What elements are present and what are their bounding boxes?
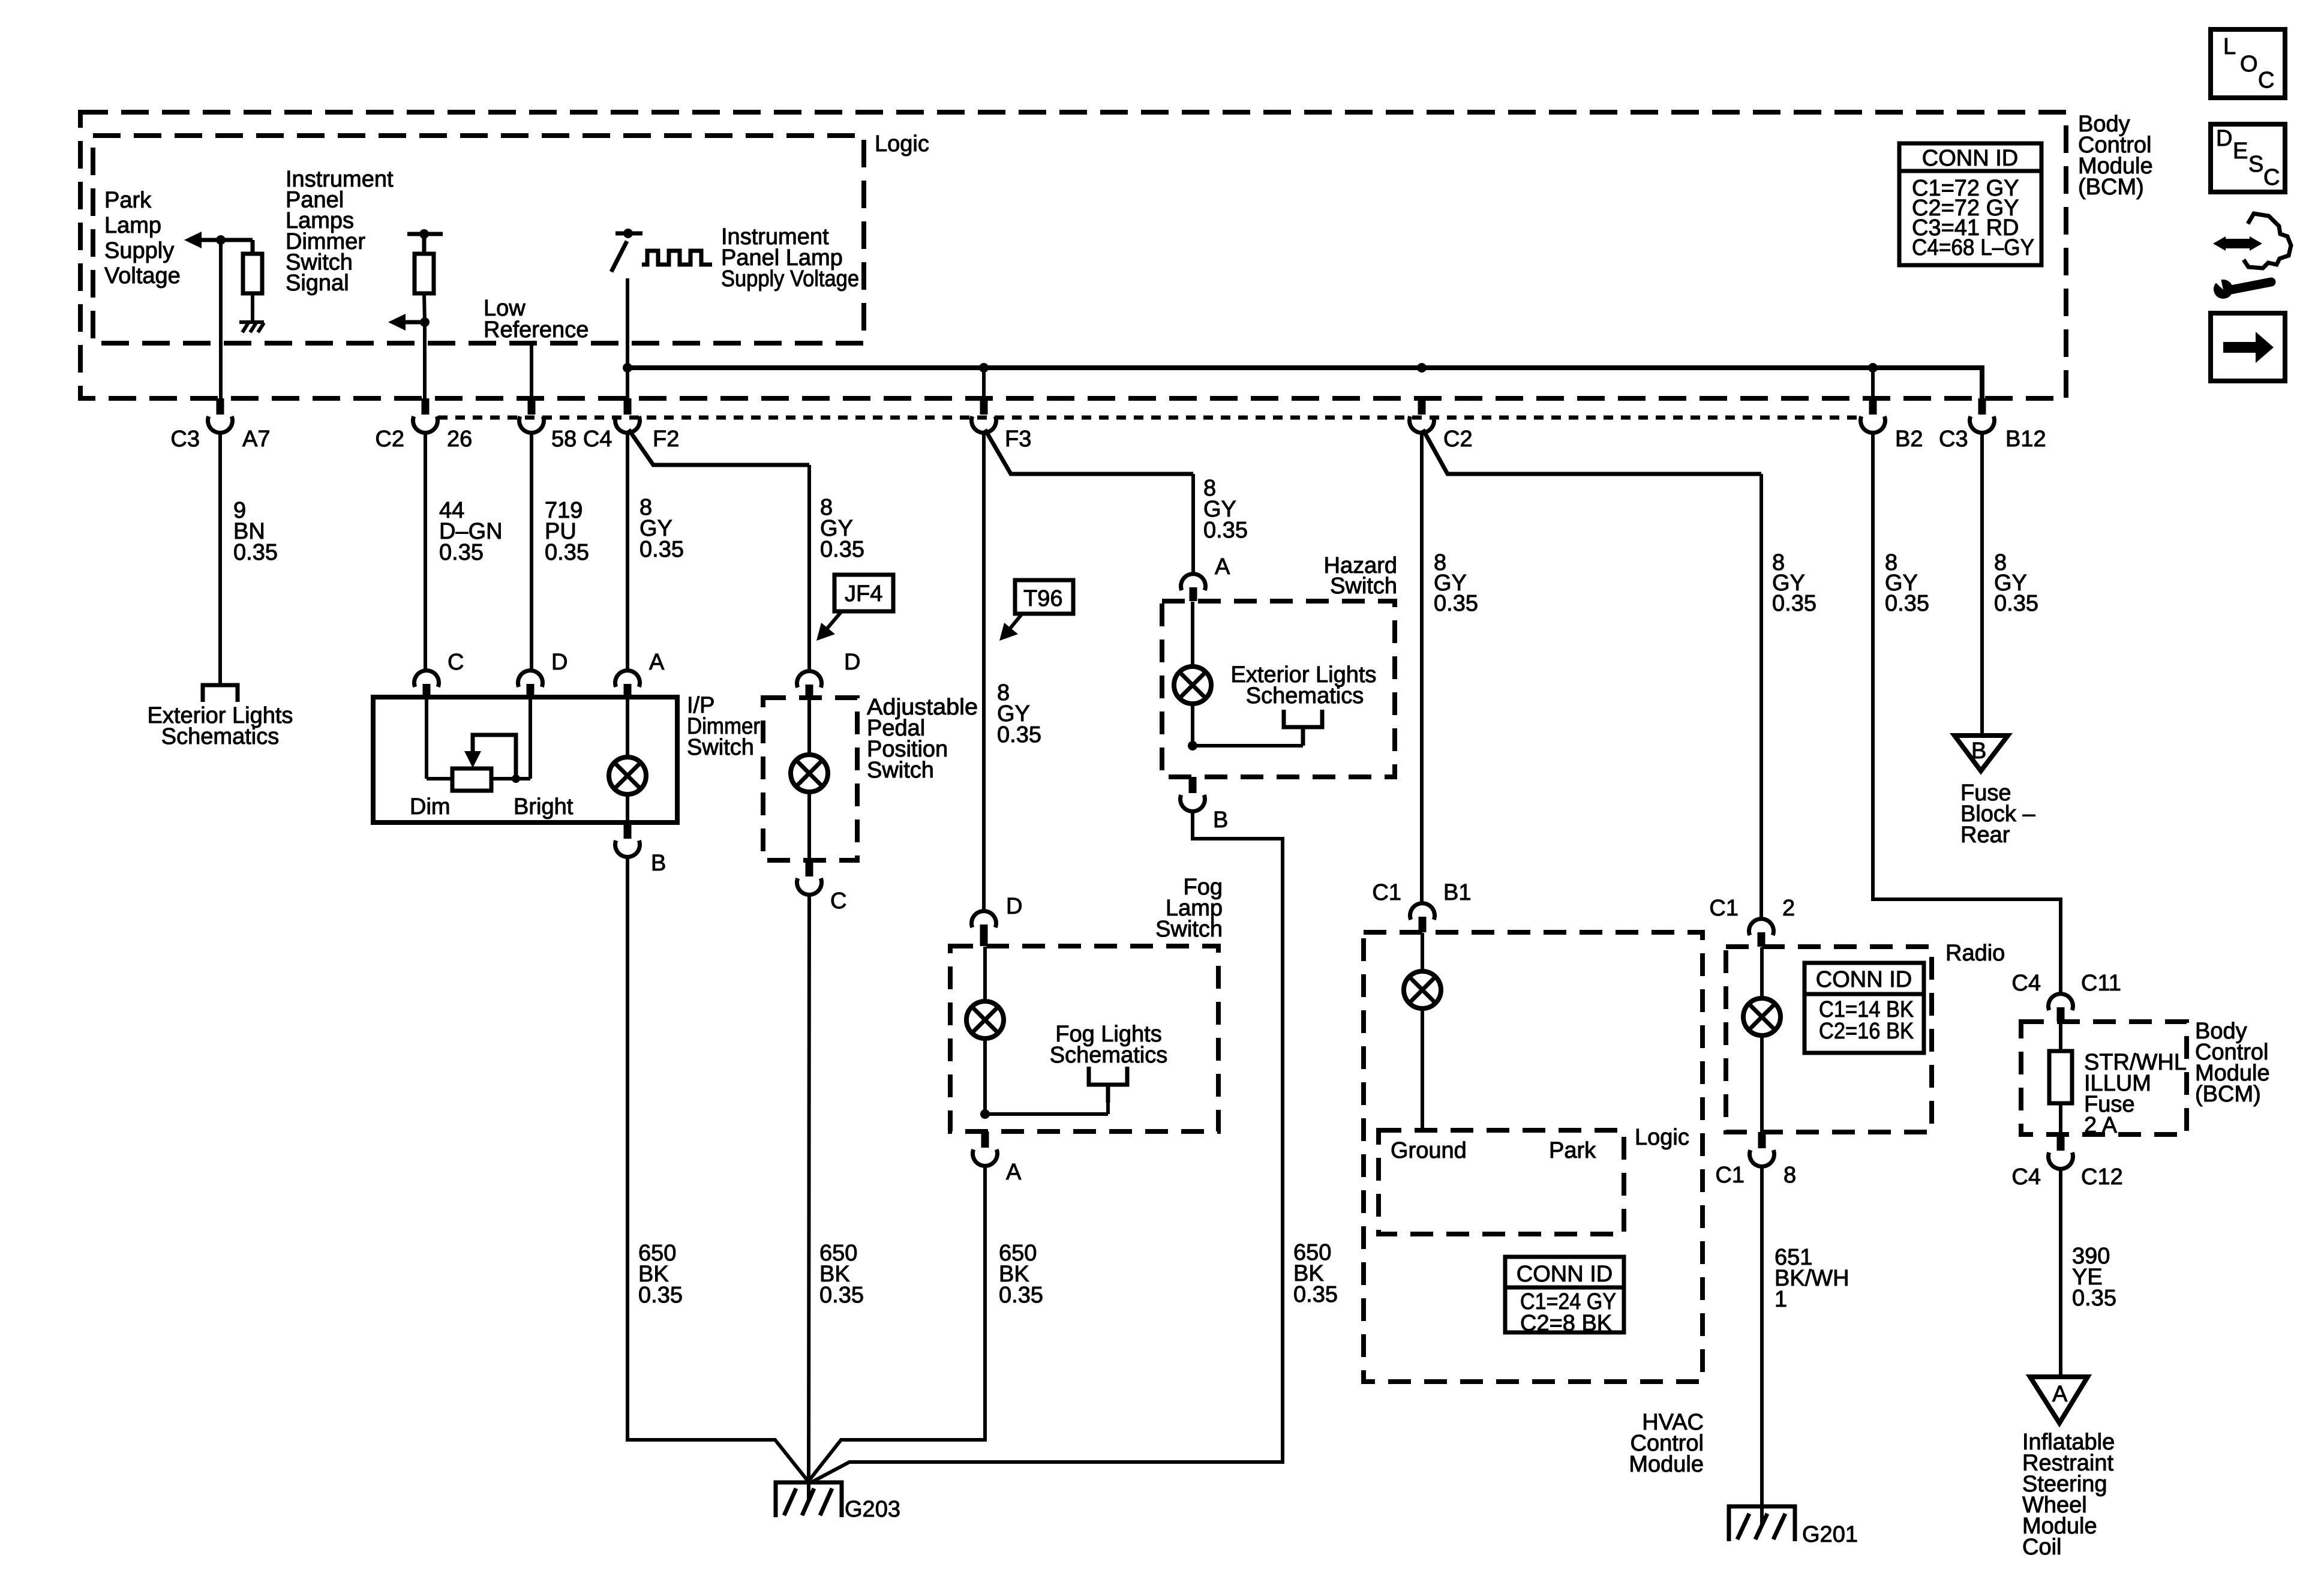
node off-page bracket Exterior Lights Schematics — [203, 685, 238, 702]
connector C1 pin 8 radio — [1758, 1132, 1766, 1148]
svg-text:C: C — [448, 650, 464, 675]
svg-text:CONN ID: CONN ID — [1816, 967, 1912, 992]
svg-text:B1: B1 — [1443, 880, 1471, 905]
icon wrench arrow — [2210, 214, 2291, 299]
wire 650 BK 0.35 dimmer ground — [627, 857, 808, 1481]
svg-text:C2=16 BK: C2=16 BK — [1819, 1019, 1914, 1044]
node park lamp output arrow — [184, 232, 202, 248]
wire 8 GY 0.35 hazard feed — [1191, 474, 1195, 575]
connector C2 pin 26 — [422, 398, 430, 415]
resistor park lamp pull-up R1 — [251, 240, 255, 254]
svg-text:Switch: Switch — [867, 758, 934, 783]
CONN ID table BCM — [1899, 143, 2041, 265]
svg-text:C3: C3 — [170, 427, 200, 452]
svg-text:0.35: 0.35 — [999, 1283, 1043, 1308]
svg-text:C: C — [2258, 68, 2274, 93]
wire 8 GY 0.35 B2 to fuse — [1873, 433, 2061, 995]
svg-text:0.35: 0.35 — [639, 537, 684, 562]
svg-text:B: B — [1971, 739, 1986, 764]
svg-text:C2: C2 — [375, 427, 404, 452]
switch instrument panel lamp supply — [623, 229, 633, 238]
svg-text:0.35: 0.35 — [638, 1283, 683, 1308]
ground G203 — [776, 1481, 842, 1517]
svg-text:C: C — [830, 888, 846, 914]
svg-text:T96: T96 — [1023, 586, 1062, 611]
connector A dimmer switch — [615, 671, 640, 687]
connector C2 BCM right — [1418, 398, 1426, 415]
svg-text:G201: G201 — [1802, 1522, 1858, 1547]
svg-text:B: B — [1213, 807, 1228, 833]
CONN ID table HVAC — [1505, 1257, 1624, 1336]
svg-text:(BCM): (BCM) — [2195, 1082, 2261, 1107]
svg-text:Supply: Supply — [104, 238, 174, 263]
lamp adjustable pedal illumination — [807, 698, 811, 755]
svg-text:O: O — [2240, 52, 2258, 77]
svg-text:0.35: 0.35 — [2072, 1286, 2116, 1311]
svg-text:D: D — [551, 650, 568, 675]
svg-text:Switch: Switch — [687, 735, 754, 760]
svg-text:0.35: 0.35 — [439, 540, 484, 565]
ground G201 — [1729, 1506, 1795, 1541]
svg-text:26: 26 — [447, 427, 472, 452]
svg-text:Switch: Switch — [1330, 574, 1397, 599]
svg-text:0.35: 0.35 — [233, 540, 278, 565]
svg-text:C2=8 BK: C2=8 BK — [1520, 1311, 1612, 1336]
svg-text:Logic: Logic — [1635, 1125, 1689, 1150]
Fog Lamp Switch box — [950, 946, 1218, 1131]
svg-text:Ground: Ground — [1391, 1138, 1467, 1163]
connector D adjustable pedal position switch — [797, 671, 822, 688]
svg-text:CONN ID: CONN ID — [1922, 146, 2018, 171]
svg-text:C1: C1 — [1709, 896, 1739, 921]
svg-text:Module: Module — [1629, 1452, 1704, 1477]
svg-text:C4: C4 — [2011, 971, 2041, 996]
wire F3 branch to hazard switch — [985, 430, 1193, 474]
wire 650 BK 0.35 hazard ground — [811, 811, 1283, 1482]
svg-text:E: E — [2233, 139, 2248, 164]
node junction B2 — [1868, 363, 1878, 373]
svg-text:Logic: Logic — [875, 131, 929, 157]
wire 651 BK/WH 1 — [1760, 1166, 1764, 1506]
connector C3 pin A7 — [217, 398, 224, 415]
wire dimmer signal to C2 26 — [423, 322, 427, 398]
node junction C2 — [1417, 363, 1427, 373]
svg-text:Dim: Dim — [410, 794, 451, 819]
connector C4 pin C11 — [2049, 994, 2073, 1010]
I/P Dimmer Switch box — [373, 697, 677, 822]
lamp dimmer switch illumination — [626, 698, 629, 757]
BCM fuse dashed box — [2021, 1022, 2187, 1134]
wire 650 BK 0.35 fog ground — [810, 1166, 985, 1479]
wire 650 BK 0.35 pedal ground — [809, 894, 809, 1482]
node dimmer signal arrow — [420, 317, 430, 327]
node off-page triangle A inflatable restraint — [2030, 1377, 2088, 1423]
svg-text:D: D — [1006, 894, 1022, 919]
connector D fog lamp switch — [972, 911, 996, 927]
wire 8 GY 0.35 dimmer feed — [626, 433, 629, 669]
svg-text:C11: C11 — [2081, 971, 2121, 996]
svg-text:C: C — [2263, 165, 2280, 190]
svg-text:CONN ID: CONN ID — [1517, 1262, 1613, 1287]
svg-text:Switch: Switch — [1155, 917, 1223, 942]
svg-text:A: A — [2052, 1382, 2068, 1407]
svg-text:Schematics: Schematics — [1246, 683, 1364, 709]
svg-text:C3: C3 — [1939, 427, 1968, 452]
connector C3 pin B2 — [1871, 368, 1875, 398]
svg-text:58 C4: 58 C4 — [551, 427, 612, 452]
fuse STR/WHL ILLUM 2A — [2059, 1022, 2062, 1051]
BCM internal Logic dashed box — [93, 136, 864, 343]
icon arrow box — [2211, 313, 2285, 381]
svg-text:Coil: Coil — [2022, 1535, 2061, 1560]
Hazard Switch box — [1162, 601, 1395, 777]
svg-text:0.35: 0.35 — [1203, 518, 1248, 543]
square wave symbol — [642, 251, 712, 265]
svg-text:C4=68 L–GY: C4=68 L–GY — [1912, 235, 2034, 260]
svg-text:0.35: 0.35 — [1434, 591, 1478, 616]
HVAC logic dashed box — [1379, 1130, 1624, 1234]
node off-page triangle B fuse block rear — [1954, 736, 2008, 771]
svg-text:1: 1 — [1774, 1287, 1787, 1312]
svg-text:D: D — [844, 650, 860, 675]
svg-text:D: D — [2216, 126, 2232, 151]
connector C4 pin C12 — [2057, 1134, 2065, 1151]
svg-text:0.35: 0.35 — [820, 537, 864, 562]
svg-text:Schematics: Schematics — [161, 724, 279, 749]
svg-text:Voltage: Voltage — [104, 263, 181, 289]
connector C dimmer switch — [415, 671, 439, 687]
connector C4 pin F3 — [982, 368, 986, 398]
wire 8 GY 0.35 fog feed — [982, 433, 986, 909]
connector C3 pin B12 — [1978, 398, 1986, 415]
icon LOC box — [2211, 29, 2285, 98]
HVAC Control Module box — [1364, 932, 1703, 1382]
connector row dotted line — [438, 416, 1858, 420]
lamp fog lamp switch illumination — [983, 947, 987, 1001]
potentiometer dimmer rheostat — [425, 698, 428, 779]
svg-text:Schematics: Schematics — [1050, 1043, 1167, 1068]
connector 58 C4 — [528, 398, 536, 415]
svg-text:2: 2 — [1782, 896, 1795, 921]
svg-text:0.35: 0.35 — [1885, 591, 1929, 616]
svg-text:Lamp: Lamp — [104, 213, 161, 238]
connector A hazard switch — [1181, 574, 1205, 590]
svg-text:B12: B12 — [2005, 427, 2046, 452]
svg-text:8: 8 — [1783, 1163, 1796, 1188]
connector C adjustable pedal — [806, 860, 813, 876]
callout JF4 — [816, 575, 893, 641]
svg-text:Reference: Reference — [484, 317, 588, 343]
svg-text:C4: C4 — [2011, 1164, 2041, 1190]
connector C1 pin B1 HVAC — [1410, 903, 1435, 920]
CONN ID table radio — [1804, 963, 1924, 1053]
wire 719 PU 0.35 — [530, 433, 533, 671]
wire C2 branch to radio — [1423, 430, 1761, 474]
svg-text:A7: A7 — [242, 427, 270, 452]
lamp HVAC illumination — [1421, 933, 1424, 971]
svg-text:G203: G203 — [845, 1497, 900, 1522]
svg-text:(BCM): (BCM) — [2078, 175, 2144, 200]
svg-text:Radio: Radio — [1945, 941, 2005, 966]
svg-text:Bright: Bright — [514, 794, 574, 819]
svg-text:C1: C1 — [1372, 880, 1401, 905]
svg-text:C12: C12 — [2081, 1164, 2123, 1190]
svg-text:C1: C1 — [1715, 1163, 1744, 1188]
wire F2 branch to adjustable pedal — [629, 430, 809, 465]
svg-text:A: A — [1006, 1160, 1022, 1185]
svg-text:Rear: Rear — [1960, 822, 2010, 848]
svg-text:L: L — [2223, 34, 2236, 59]
wire 390 YE 0.35 — [2059, 1169, 2062, 1377]
lamp radio illumination — [1760, 947, 1764, 998]
svg-text:F2: F2 — [653, 427, 679, 452]
svg-text:0.35: 0.35 — [545, 540, 589, 565]
resistor dimmer signal pull-up R2 — [407, 232, 443, 236]
svg-text:A: A — [1215, 554, 1230, 580]
wire internal BCM supply bus — [627, 368, 1982, 398]
Radio box — [1726, 947, 1932, 1132]
svg-text:Park: Park — [1549, 1138, 1596, 1163]
svg-text:A: A — [649, 650, 665, 675]
connector A fog lamp switch — [981, 1131, 989, 1148]
svg-text:Park: Park — [104, 188, 152, 213]
connector C1 pin 2 radio — [1749, 919, 1774, 935]
svg-text:Signal: Signal — [286, 271, 349, 296]
Adjustable Pedal Position Switch box — [763, 698, 857, 860]
callout T96 — [999, 580, 1073, 641]
svg-text:C2: C2 — [1443, 427, 1473, 452]
svg-text:B2: B2 — [1895, 427, 1923, 452]
svg-text:Supply Voltage: Supply Voltage — [721, 266, 859, 292]
svg-text:0.35: 0.35 — [1293, 1282, 1338, 1307]
Body Control Module BCM outer dashed box — [80, 112, 2066, 398]
node junction F3 — [979, 363, 989, 373]
connector B hazard switch — [1189, 777, 1197, 793]
svg-text:JF4: JF4 — [845, 581, 882, 607]
node junction F2 — [623, 363, 632, 373]
connector C4 pin F2 — [624, 398, 632, 415]
svg-text:S: S — [2248, 152, 2263, 177]
svg-text:0.35: 0.35 — [997, 722, 1041, 748]
wire 8 GY 0.35 B12 — [1980, 433, 1984, 736]
lamp hazard switch illumination — [1191, 602, 1194, 667]
wire 8 GY 0.35 HVAC feed — [1420, 433, 1424, 904]
svg-text:0.35: 0.35 — [1994, 591, 2038, 616]
wire 9 BN 0.35 — [218, 433, 222, 685]
connector B dimmer switch — [624, 822, 632, 839]
wire 44 D-GN 0.35 — [424, 433, 427, 671]
wire low reference — [530, 343, 533, 398]
icon DESC box — [2211, 124, 2285, 192]
wire park lamp supply to C3 A7 — [219, 240, 223, 398]
connector D dimmer switch — [518, 671, 543, 687]
svg-text:2 A: 2 A — [2084, 1113, 2118, 1138]
svg-text:F3: F3 — [1005, 427, 1031, 452]
svg-text:0.35: 0.35 — [819, 1283, 864, 1308]
ground internal BCM small — [239, 322, 264, 332]
svg-text:B: B — [651, 851, 666, 876]
svg-text:0.35: 0.35 — [1772, 591, 1816, 616]
